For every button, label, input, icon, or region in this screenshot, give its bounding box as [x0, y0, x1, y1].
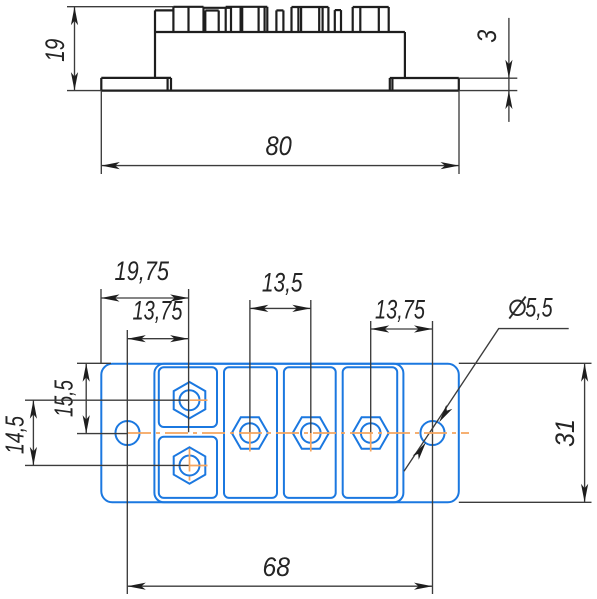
svg-text:13,5: 13,5 — [262, 268, 303, 298]
svg-text:13,75: 13,75 — [375, 295, 426, 325]
svg-text:3: 3 — [472, 30, 502, 43]
svg-text:31: 31 — [550, 419, 580, 447]
svg-text:19: 19 — [40, 39, 70, 62]
svg-text:13,75: 13,75 — [133, 296, 184, 326]
svg-text:80: 80 — [266, 131, 292, 161]
svg-text:5,5: 5,5 — [525, 293, 553, 323]
svg-text:14,5: 14,5 — [0, 416, 30, 454]
svg-text:19,75: 19,75 — [115, 256, 170, 286]
svg-text:15,5: 15,5 — [49, 380, 79, 417]
svg-text:68: 68 — [263, 552, 291, 582]
